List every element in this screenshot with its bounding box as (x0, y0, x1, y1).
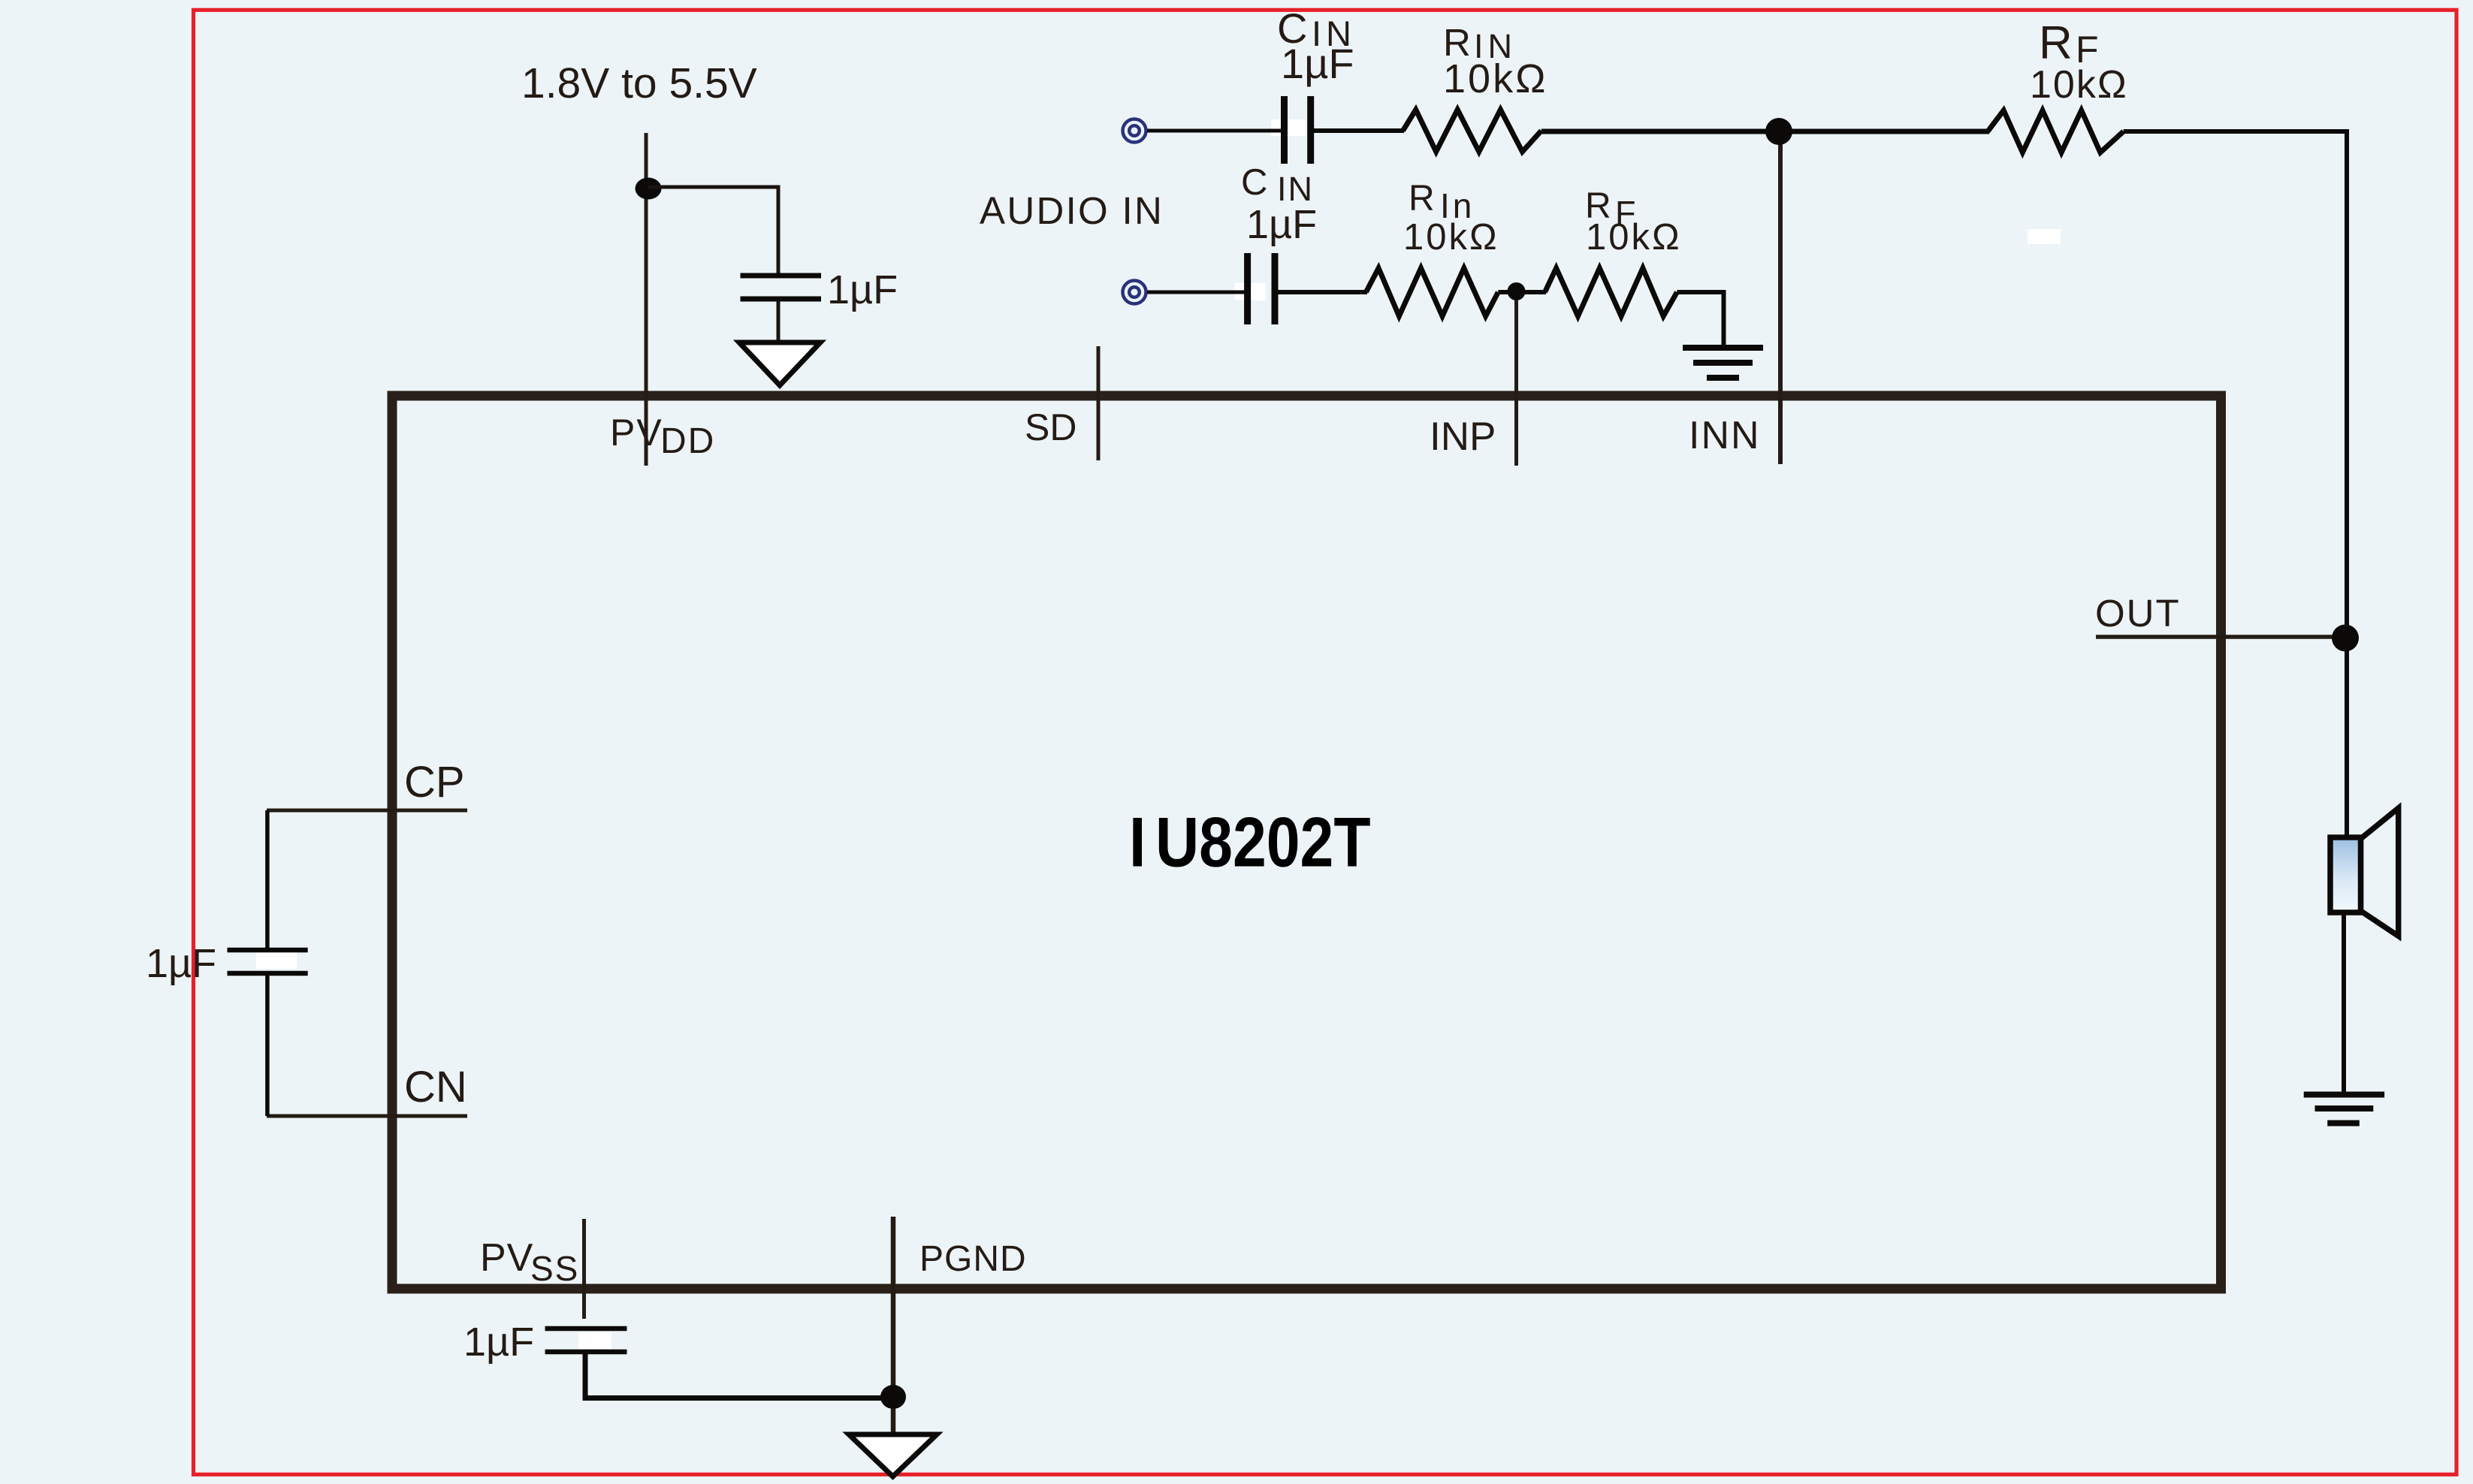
pin SD lead (1097, 346, 1101, 460)
wire RIn to RF2 / INP node (1498, 290, 1546, 294)
svg-text:1µF: 1µF (827, 267, 898, 312)
wire PVSS cap to PGND net (585, 1354, 893, 1398)
ground (RF second row, bars) (1683, 345, 1763, 351)
input connector J1 (top) (1123, 119, 1146, 143)
svg-text:10kΩ: 10kΩ (1586, 217, 1682, 258)
capacitor CIN (top row) (1281, 96, 1288, 164)
wire RF to output corner (2124, 131, 2347, 638)
wire PVDD branch to bypass cap (648, 187, 778, 277)
svg-text:PV: PV (610, 412, 663, 454)
svg-text:1µF: 1µF (463, 1320, 534, 1365)
svg-text:CN: CN (404, 1063, 467, 1111)
svg-text:1µF: 1µF (1246, 202, 1317, 247)
resistor RF (top right) (1988, 110, 2124, 152)
svg-text:CP: CP (404, 758, 465, 807)
svg-text:DD: DD (660, 421, 715, 461)
svg-text:SD: SD (1025, 406, 1076, 448)
white patch artifact (row1 cap) (1271, 119, 1306, 136)
IC body IU8202T (392, 396, 2221, 1289)
svg-text:R: R (1409, 179, 1435, 219)
svg-text:1µF: 1µF (1281, 40, 1354, 87)
wire J2 to CIN2 (1147, 291, 1246, 294)
wire speaker to ground (2342, 912, 2346, 1093)
svg-text:10kΩ: 10kΩ (1403, 217, 1499, 258)
svg-text:INP: INP (1430, 415, 1496, 459)
wire J1 to CIN (1147, 129, 1282, 133)
node INN junction (1765, 118, 1792, 145)
white patch artifact (top right) (2028, 229, 2061, 244)
capacitor CIN (second row) (1244, 253, 1251, 324)
pin INP lead (1514, 291, 1518, 466)
white patch artifact (PVSS cap) (578, 1332, 611, 1349)
svg-text:1µF: 1µF (146, 941, 216, 986)
white patch artifact (row2 cap) (1235, 283, 1266, 300)
pin PVDD lead (645, 133, 648, 466)
node INP junction (1508, 282, 1526, 300)
wire OUT junction to speaker (2345, 638, 2349, 839)
resistor RF (second row) (1545, 268, 1677, 316)
speaker LS1 (2330, 837, 2361, 912)
wire RIN to INN node (1541, 129, 1989, 134)
pin PVSS lead (582, 1219, 586, 1319)
svg-text:INN: INN (1689, 414, 1761, 457)
svg-text:R: R (2039, 17, 2073, 69)
resistor RIN (top row) (1403, 110, 1541, 152)
wire J1 to CIN (over patch) (1247, 129, 1282, 133)
svg-text:1.8V to 5.5V: 1.8V to 5.5V (521, 59, 757, 107)
capacitor 1uF (CP-CN flying cap) wires (265, 810, 270, 949)
pin PGND lead (891, 1217, 896, 1432)
input connector J2 (bottom) (1123, 281, 1146, 304)
resistor RIn (second row) (1366, 268, 1498, 316)
svg-text:I: I (1129, 803, 1146, 882)
wire J2 to CIN2 (over patch) (1209, 291, 1246, 294)
capacitor 1uF (PVDD bypass) (741, 273, 822, 279)
pin INN lead (1778, 131, 1783, 464)
svg-text:PV: PV (480, 1236, 533, 1280)
ground (speaker, bars) (2304, 1092, 2384, 1098)
wire CIN to RIN (1314, 128, 1404, 133)
ground (PGND, triangle) (849, 1434, 937, 1476)
svg-text:10kΩ: 10kΩ (1443, 56, 1548, 101)
capacitor 1uF (CP-CN flying cap) (228, 948, 308, 953)
svg-text:10kΩ: 10kΩ (2030, 63, 2128, 107)
node OUT junction (2332, 625, 2359, 652)
capacitor 1uF (PVSS) (545, 1326, 627, 1332)
wire CIN2 to RIn (1278, 290, 1367, 294)
svg-text:OUT: OUT (2095, 592, 2181, 635)
svg-text:AUDIO IN: AUDIO IN (980, 189, 1164, 232)
white patch artifact (flying cap) (256, 951, 297, 969)
wire RF2 to ground (1677, 292, 1723, 346)
node PGND junction (880, 1385, 906, 1409)
svg-text:PGND: PGND (919, 1239, 1027, 1279)
wire cap to ground (777, 301, 781, 342)
pin OUT lead (2096, 635, 2345, 639)
svg-text:C: C (1241, 162, 1267, 203)
ground (PVDD bypass, triangle) (739, 342, 820, 385)
node PVDD junction (636, 178, 662, 200)
svg-text:SS: SS (530, 1249, 579, 1288)
pin CP lead (267, 809, 467, 813)
svg-text:U8202T: U8202T (1155, 803, 1371, 882)
pin CN lead (267, 1115, 467, 1118)
